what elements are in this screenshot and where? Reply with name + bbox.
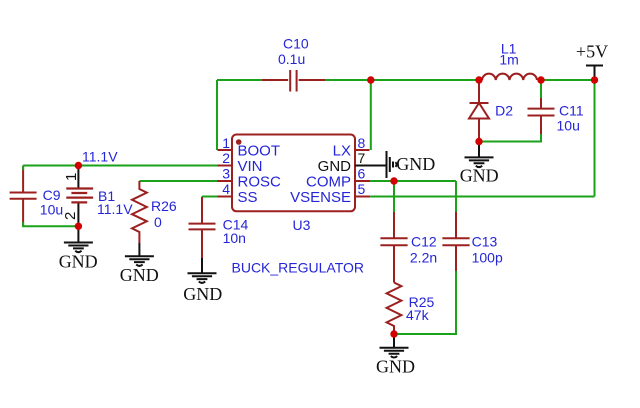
diode D2 [469,80,513,142]
capacitor C12 [380,212,437,283]
svg-text:GND: GND [318,158,352,175]
pin 5 VSENSE [290,181,370,206]
junction node VIN B1 top [75,162,82,169]
ground under R26 [120,256,159,285]
svg-text:ROSC: ROSC [238,174,282,191]
svg-text:10u: 10u [557,118,580,134]
junction node top rail C11 [537,76,544,83]
junction node top rail pin8 [367,76,374,83]
svg-text:10u: 10u [40,202,63,218]
svg-text:8: 8 [358,135,366,151]
pin 4 SS [218,181,258,206]
wire C14 to ground [201,258,203,273]
ground under D2 [460,157,499,185]
svg-text:U3: U3 [293,217,311,233]
pin 7 GND [318,150,370,175]
pin 3 ROSC [218,166,282,191]
junction node top rail D2 [475,76,482,83]
wire right vertical from +5V [594,80,596,197]
svg-text:4: 4 [222,181,230,197]
svg-text:2: 2 [222,150,230,166]
svg-text:6: 6 [358,166,366,182]
svg-text:0: 0 [154,214,162,230]
svg-text:GND: GND [120,265,159,285]
junction node +5V [591,76,598,83]
wire C9 bottom corner green [23,222,78,226]
wire R26 to ground [138,243,140,256]
capacitor C13 [442,212,503,272]
svg-text:VIN: VIN [238,158,263,175]
svg-text:GND: GND [183,284,222,304]
wire R25 to ground [393,334,395,348]
junction node COMP [390,177,397,184]
wire VSENSE rail [370,196,594,198]
wire R25 bottom to C13 bottom [394,271,456,334]
node 11.1V label [82,149,118,165]
svg-text:10n: 10n [223,230,246,246]
svg-text:GND: GND [59,251,98,271]
junction node R25 bottom [390,330,397,337]
wire C11 top green [540,80,542,98]
wire COMP down to C12 [393,181,395,212]
wire B1 to ground [77,226,79,242]
inductor L1 [482,41,537,81]
svg-text:7: 7 [358,150,366,166]
svg-text:3: 3 [222,166,230,182]
svg-text:+5V: +5V [576,42,608,62]
svg-text:VSENSE: VSENSE [290,189,351,206]
svg-text:100p: 100p [472,249,503,265]
wire top rail middle segment [325,79,479,81]
svg-text:47k: 47k [406,307,430,323]
svg-text:LX: LX [333,143,351,160]
svg-text:11.1V: 11.1V [82,149,118,165]
svg-text:BOOT: BOOT [238,143,281,160]
svg-text:C11: C11 [559,103,584,119]
wire pin 8 vertical [370,80,372,150]
svg-text:1: 1 [222,135,230,151]
pin 1 BOOT [218,135,281,160]
svg-text:BUCK_REGULATOR: BUCK_REGULATOR [232,260,365,276]
wire pin 7 to gnd symbol [370,165,387,167]
capacitor C9 [10,166,64,227]
svg-text:5: 5 [358,181,366,197]
ground under B1 [59,243,98,272]
svg-text:1m: 1m [499,52,518,68]
wire COMP corner down to C13 [455,181,457,212]
resistor R26 [132,181,177,243]
svg-text:C12: C12 [411,234,437,250]
battery B1 [62,166,133,227]
pin 8 LX [333,135,370,160]
svg-text:1: 1 [63,173,80,181]
capacitor C11 [528,97,584,135]
power +5V [576,42,608,81]
wire left vertical to pin 1 [216,80,218,150]
capacitor C14 [189,197,249,258]
ground under C14 [183,273,222,304]
junction node B1 bottom [75,223,82,230]
svg-text:COMP: COMP [306,174,351,191]
svg-text:2.2n: 2.2n [410,249,437,265]
svg-text:0.1u: 0.1u [278,51,305,67]
resistor R25 [387,283,435,335]
wire COMP net horizontal [370,180,456,182]
ground net flag at pin 7 [387,151,436,178]
wire top rail right segment [541,79,595,81]
ground under R25 [376,348,415,377]
wire C9 top corner green [22,166,24,171]
wire D2 anode to ground [478,142,480,158]
wire top rail left segment [217,79,262,81]
svg-text:D2: D2 [495,103,513,119]
pin 2 VIN [218,150,263,175]
junction node D2 anode [475,138,482,145]
wire SS to C14 [202,197,218,206]
wire C11 bottom to D2 anode [479,134,541,142]
svg-text:11.1V: 11.1V [97,201,133,217]
wire ROSC to R26 [139,180,217,182]
capacitor C10 [262,36,325,92]
IC U3 BUCK_REGULATOR body [232,135,365,276]
svg-text:GND: GND [460,165,499,185]
svg-text:GND: GND [376,356,415,376]
svg-text:C10: C10 [283,36,309,52]
wire VIN rail [23,165,217,167]
svg-text:C13: C13 [472,234,498,250]
svg-text:SS: SS [238,189,258,206]
svg-text:GND: GND [396,154,435,174]
svg-text:2: 2 [62,212,79,220]
pin 6 COMP [306,166,370,191]
svg-text:R26: R26 [151,198,177,214]
